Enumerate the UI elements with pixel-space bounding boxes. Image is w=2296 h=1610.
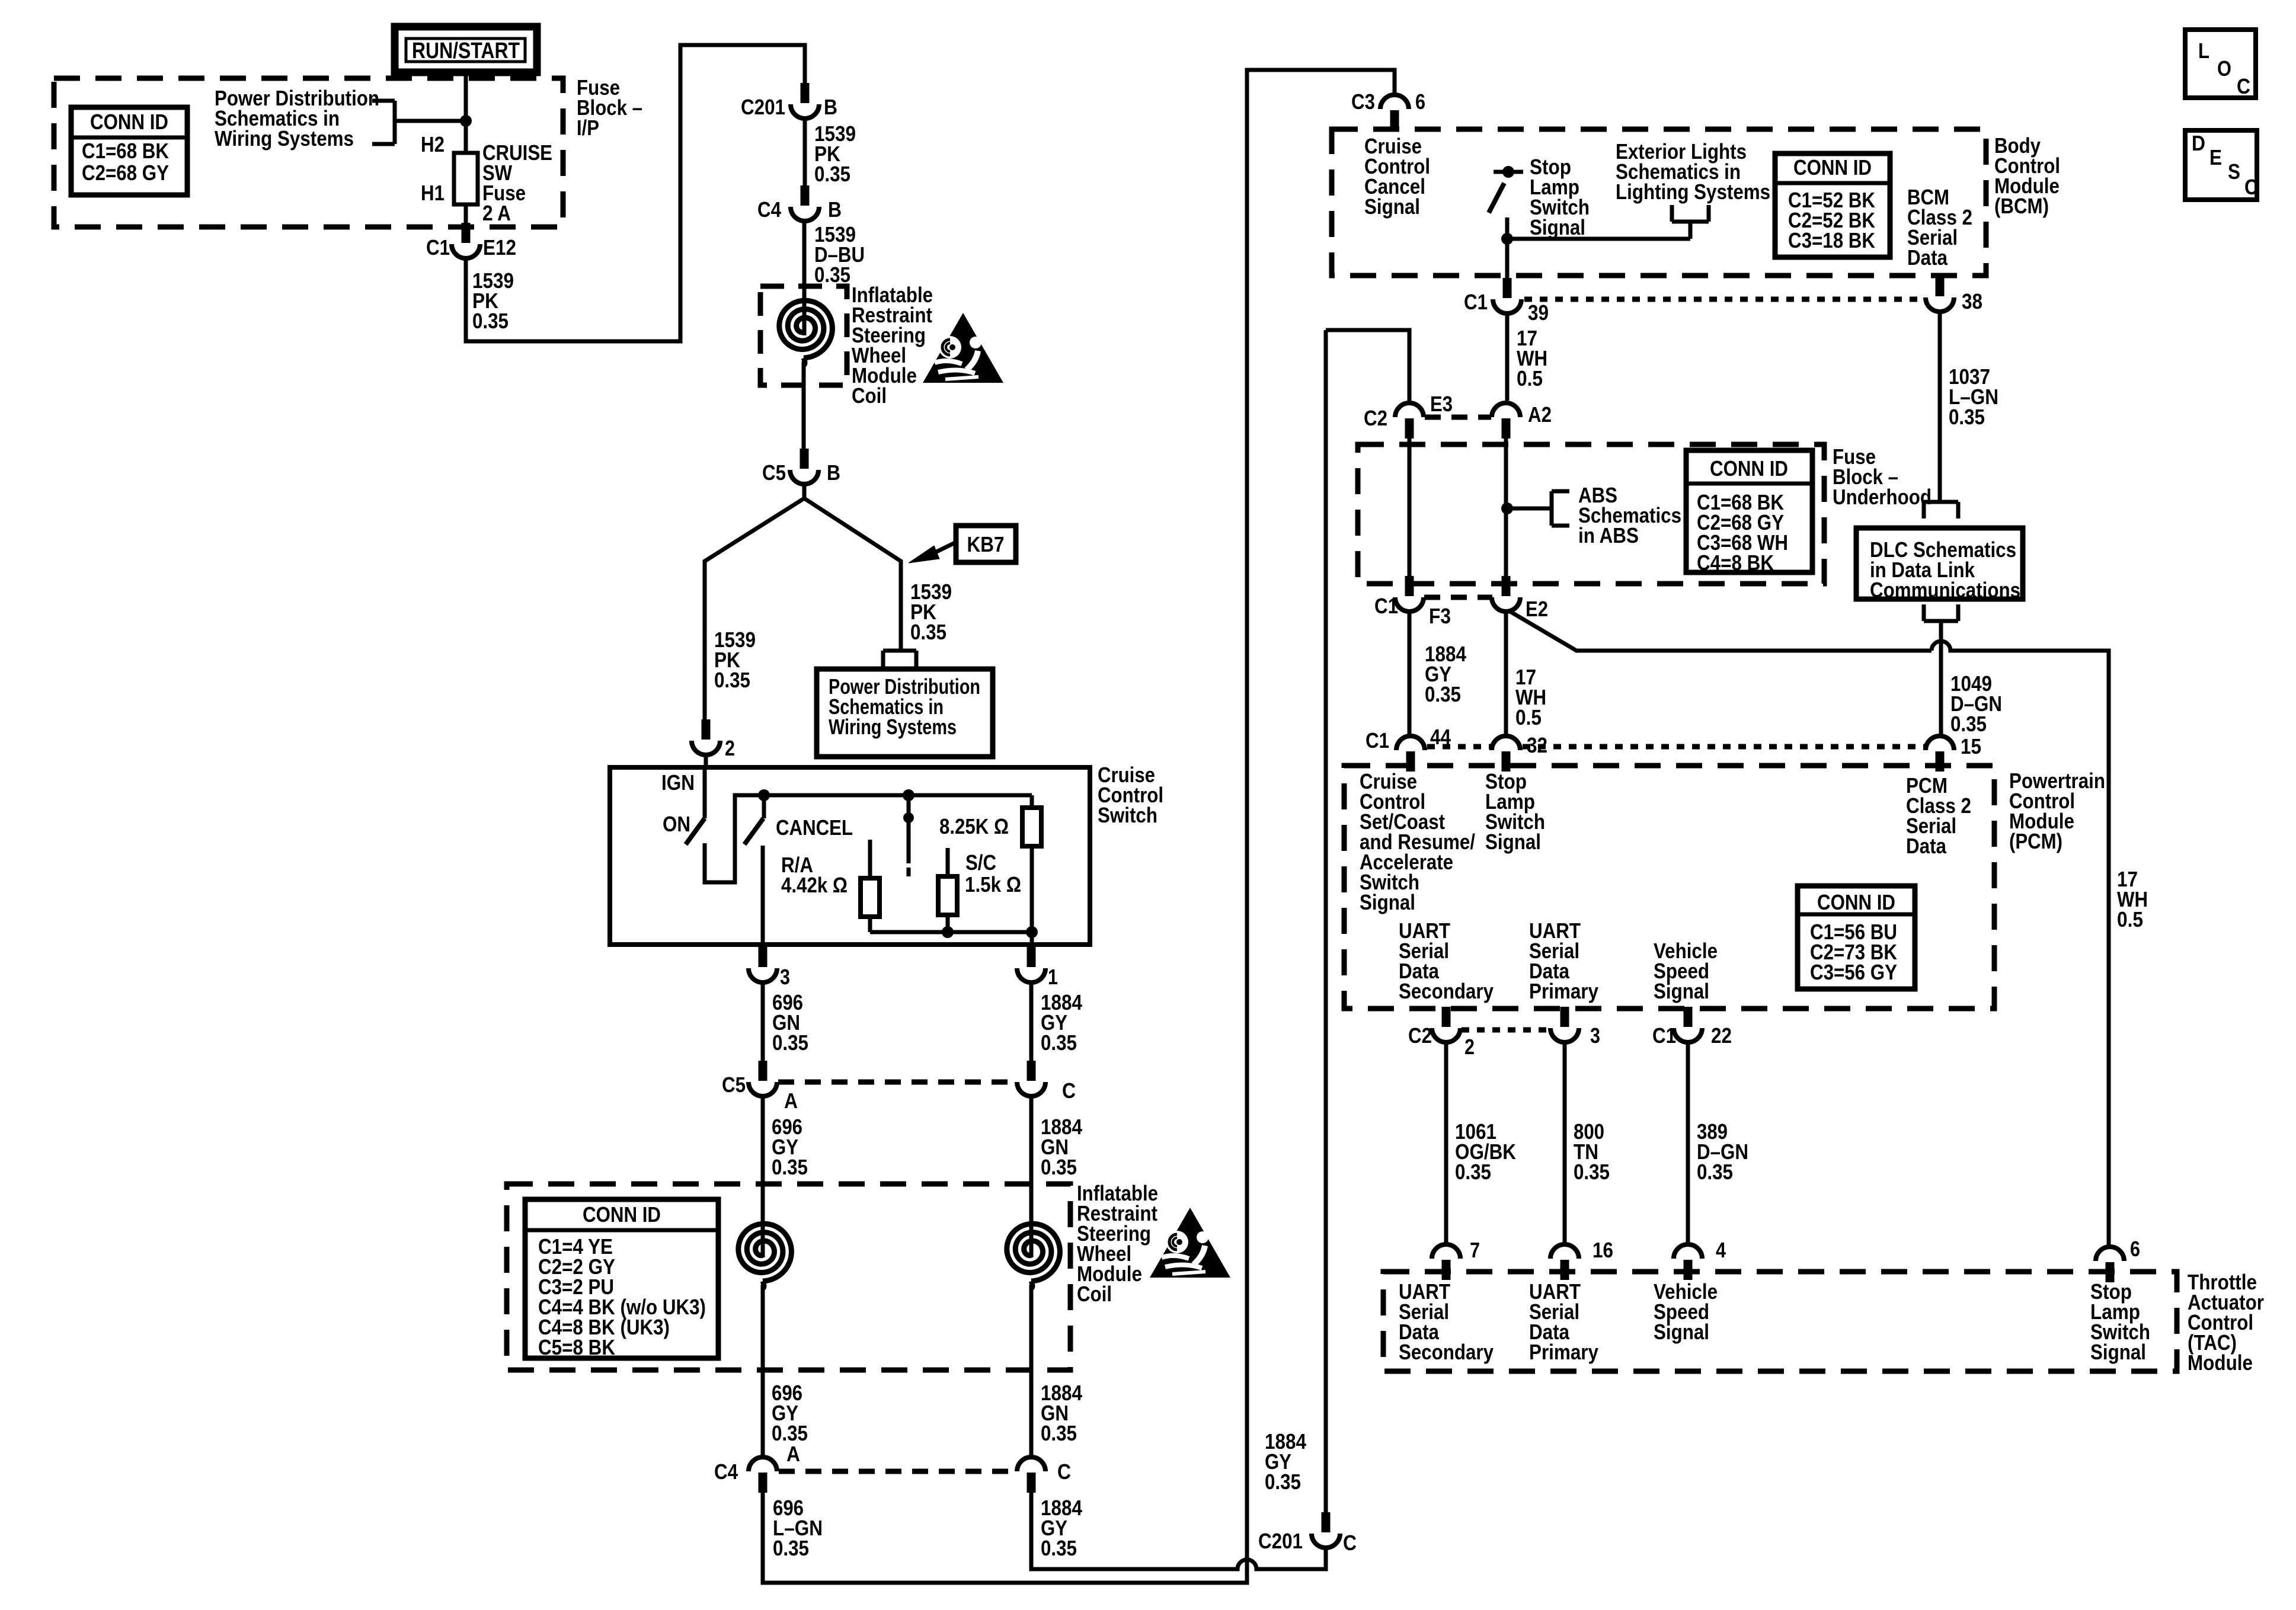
svg-text:Data: Data: [1906, 834, 1947, 858]
svg-text:Underhood: Underhood: [1833, 485, 1932, 509]
svg-text:C1: C1: [1366, 728, 1389, 753]
dotted link 2-3: [1462, 1028, 1550, 1033]
svg-text:Data: Data: [1907, 245, 1948, 270]
svg-text:0.35: 0.35: [1425, 682, 1461, 706]
svg-text:B: B: [828, 197, 842, 222]
DESC reference box: [2185, 130, 2258, 200]
svg-text:C: C: [2244, 175, 2258, 199]
Cruise Control Switch box: [610, 767, 1090, 945]
Throttle Actuator Control dashed box: [1383, 1272, 2177, 1371]
svg-text:0.35: 0.35: [1949, 405, 1985, 429]
wire stop lamp switch down: [1505, 217, 1510, 278]
svg-text:C4: C4: [757, 197, 781, 222]
wire C4/A to bottom bus: [763, 70, 1395, 1583]
dotted link 44-32: [1427, 744, 1491, 750]
wire 22 to TAC 4: [1686, 1042, 1690, 1244]
svg-text:C1: C1: [426, 235, 450, 260]
svg-text:2: 2: [725, 736, 735, 760]
svg-text:0.5: 0.5: [1517, 366, 1543, 391]
connector pin 3: [759, 947, 768, 967]
svg-text:Wiring Systems: Wiring Systems: [829, 715, 957, 739]
svg-text:E2: E2: [1526, 597, 1548, 621]
reference bracket to DLC: [1922, 502, 1926, 518]
svg-text:1.5k Ω: 1.5k Ω: [965, 872, 1021, 897]
svg-text:D: D: [2192, 131, 2205, 155]
svg-text:C: C: [1062, 1078, 1076, 1103]
connector C2 2: [1442, 1007, 1451, 1027]
connector C1 44: [1396, 736, 1425, 750]
svg-text:H1: H1: [421, 181, 445, 205]
wire E2 to PCM 32: [1504, 612, 1508, 736]
wire C201 to C4: [803, 119, 807, 185]
svg-text:8.25K Ω: 8.25K Ω: [939, 814, 1009, 838]
svg-text:C201: C201: [1258, 1529, 1303, 1553]
fuse CRUISE SW 2A: [454, 153, 478, 204]
svg-text:O: O: [2217, 56, 2231, 81]
wire coil2 right down: [1029, 1285, 1034, 1370]
junction node cancel: [758, 789, 770, 801]
svg-text:0.5: 0.5: [2117, 907, 2143, 932]
svg-text:E3: E3: [1430, 392, 1453, 416]
svg-text:in ABS: in ABS: [1578, 523, 1639, 548]
svg-text:(PCM): (PCM): [2009, 829, 2062, 853]
dotted connector line C1-38: [1524, 297, 1921, 302]
Powertrain Control Module dashed box: [1344, 766, 1994, 1009]
svg-text:0.35: 0.35: [1041, 1030, 1077, 1055]
wire C2/E3 into fuse block: [1408, 437, 1412, 576]
connector 16 (TAC): [1550, 1244, 1579, 1259]
svg-text:Secondary: Secondary: [1399, 1340, 1494, 1364]
RUN/START ignition feed box: [395, 27, 537, 72]
svg-text:0.35: 0.35: [1455, 1160, 1491, 1184]
wire C lower to C201 C with hop: [1031, 1493, 1326, 1569]
wire pin3 to C5/A: [761, 982, 765, 1061]
svg-text:7: 7: [1470, 1238, 1480, 1262]
svg-text:C: C: [2237, 74, 2250, 98]
wire C201/C up to junction bar: [1324, 330, 1328, 1512]
svg-text:A2: A2: [1528, 402, 1552, 427]
svg-text:Wiring Systems: Wiring Systems: [215, 126, 354, 151]
wire DLC to PCM 15: [1939, 621, 1943, 737]
svg-text:16: 16: [1593, 1238, 1613, 1262]
stop lamp switch symbol: [1502, 166, 1514, 178]
svg-text:0.35: 0.35: [814, 263, 850, 287]
svg-text:S: S: [2228, 159, 2240, 184]
connector 38: [1936, 276, 1945, 296]
wire coil2 left down: [761, 1285, 765, 1370]
Fuse Block - I/P dashed box: [54, 78, 563, 227]
svg-text:RUN/START: RUN/START: [412, 39, 520, 63]
inline connector dashed link: [778, 1080, 1016, 1085]
connector 6 (TAC): [2096, 1247, 2124, 1261]
connector 3 (PCM): [1560, 1007, 1569, 1027]
connector C1 E12: [462, 223, 471, 243]
svg-text:CANCEL: CANCEL: [776, 815, 853, 840]
svg-text:B: B: [824, 95, 837, 119]
wire 3 to TAC 16: [1563, 1042, 1567, 1244]
svg-text:0.35: 0.35: [1265, 1470, 1301, 1494]
connector C1 22: [1684, 1007, 1693, 1027]
connector pin 2 cruise switch: [702, 719, 711, 740]
svg-text:IGN: IGN: [661, 770, 695, 795]
connector 7 (TAC): [1432, 1244, 1460, 1259]
svg-text:Lighting Systems: Lighting Systems: [1616, 180, 1770, 204]
wire 8.25K resistor down: [1030, 846, 1034, 932]
wire C1/39 down to A2: [1505, 313, 1510, 401]
CONN ID table (underhood): [1686, 450, 1812, 575]
svg-text:Primary: Primary: [1529, 979, 1598, 1003]
connector C4 A (lower): [749, 1457, 777, 1471]
svg-text:22: 22: [1711, 1023, 1732, 1048]
set/coast switch contact: [907, 795, 911, 818]
LOC reference box: [2185, 30, 2256, 98]
svg-text:CONN ID: CONN ID: [1793, 155, 1872, 180]
svg-text:A: A: [786, 1442, 800, 1466]
svg-text:Module: Module: [2188, 1350, 2253, 1375]
dotted link 32-15: [1523, 744, 1924, 750]
junction node set/coast: [903, 789, 914, 801]
svg-text:C3=56 GY: C3=56 GY: [1810, 960, 1897, 984]
steering wheel module coil spiral: [779, 300, 833, 358]
svg-text:S/C: S/C: [965, 850, 996, 875]
connector C (right): [1027, 1061, 1036, 1081]
coil spiral right: [1007, 1224, 1060, 1281]
reference bracket to Power Distribution box: [881, 651, 885, 667]
wire coil to C5: [802, 361, 806, 449]
connector 4 (TAC): [1674, 1244, 1702, 1259]
connector C201 C: [1322, 1512, 1331, 1532]
wire C4/B to coil: [802, 221, 807, 335]
inflatable restraint coil dashed box: [760, 286, 847, 385]
svg-text:C3: C3: [1351, 89, 1375, 114]
svg-text:2 A: 2 A: [482, 201, 511, 225]
inline connector dashed link 2: [779, 1469, 1016, 1474]
CONN ID table (BCM): [1775, 153, 1890, 257]
connector C1 F3: [1405, 576, 1414, 596]
Body Control Module dashed box: [1332, 129, 1986, 276]
svg-text:ON: ON: [663, 812, 690, 836]
svg-text:0.35: 0.35: [1574, 1160, 1610, 1184]
svg-text:(BCM): (BCM): [1994, 194, 2049, 218]
svg-text:Coil: Coil: [852, 383, 887, 408]
svg-text:0.35: 0.35: [1950, 712, 1987, 736]
svg-text:C4: C4: [714, 1459, 738, 1484]
svg-text:38: 38: [1962, 289, 1982, 313]
svg-text:Signal: Signal: [1654, 979, 1709, 1003]
svg-text:C1=68 BK: C1=68 BK: [82, 139, 169, 163]
svg-text:C: C: [1057, 1459, 1071, 1484]
svg-text:Primary: Primary: [1529, 1340, 1598, 1364]
svg-text:3: 3: [780, 965, 790, 989]
connector 15: [1926, 736, 1954, 750]
wire 38 down to DLC: [1938, 312, 1942, 502]
svg-text:C5=8 BK: C5=8 BK: [538, 1335, 615, 1359]
Fuse Block Underhood dashed box: [1358, 444, 1824, 584]
CANCEL switch: [762, 795, 766, 818]
junction bar to stop/cancel branch: [1326, 330, 1409, 401]
svg-text:Signal: Signal: [2090, 1340, 2146, 1364]
svg-text:2: 2: [1464, 1035, 1475, 1059]
IGN wire inside switch: [703, 767, 707, 818]
connector C5 B: [800, 449, 809, 469]
svg-text:0.35: 0.35: [472, 309, 509, 333]
wire to R/A resistor: [868, 840, 872, 878]
wire C down to coil 2 right: [1029, 1096, 1034, 1257]
svg-text:CONN ID: CONN ID: [583, 1202, 661, 1227]
connector C2 E3: [1395, 403, 1424, 417]
connector C4 B: [801, 185, 810, 206]
svg-text:C5: C5: [762, 460, 786, 485]
svg-text:CONN ID: CONN ID: [1710, 456, 1788, 481]
svg-text:Signal: Signal: [1360, 890, 1415, 914]
wire to S/C resistor: [946, 848, 950, 876]
svg-text:C: C: [1343, 1531, 1357, 1555]
svg-text:Communications: Communications: [1870, 578, 2020, 602]
connector C201 B: [801, 83, 810, 103]
wire fuse to C1/E12: [464, 204, 468, 223]
wire 2 to TAC 7: [1444, 1042, 1448, 1244]
connector A2: [1492, 403, 1520, 417]
svg-text:C4=8 BK: C4=8 BK: [1697, 550, 1774, 575]
svg-text:C1: C1: [1374, 594, 1398, 618]
svg-text:0.35: 0.35: [1041, 1421, 1077, 1445]
connector 32: [1492, 736, 1520, 750]
svg-text:C2: C2: [1364, 406, 1387, 430]
svg-text:B: B: [827, 460, 840, 485]
top bus inside switch: [764, 793, 1032, 798]
svg-text:C2=68 GY: C2=68 GY: [82, 161, 169, 185]
svg-text:E12: E12: [483, 235, 516, 260]
svg-text:C2: C2: [1408, 1023, 1432, 1048]
svg-text:A: A: [784, 1089, 798, 1113]
svg-text:0.35: 0.35: [772, 1030, 808, 1055]
svg-text:Coil: Coil: [1077, 1282, 1112, 1306]
resistor R/A 4.42k: [861, 878, 880, 917]
reference bracket from DLC: [1922, 604, 1926, 621]
wire bracket to RUN/START feed: [395, 119, 466, 123]
wire F3 to PCM 44: [1408, 612, 1412, 736]
svg-text:0.35: 0.35: [1041, 1155, 1077, 1179]
reference bracket to Power Distribution: [372, 99, 395, 103]
reference bracket ABS: [1552, 489, 1569, 494]
svg-text:E: E: [2209, 145, 2222, 169]
svg-text:C3=18 BK: C3=18 BK: [1788, 228, 1875, 252]
wire RUN/START down to fuse: [464, 72, 468, 153]
svg-text:Signal: Signal: [1530, 215, 1585, 239]
svg-text:I/P: I/P: [577, 116, 599, 140]
connector C (lower right): [1017, 1457, 1045, 1471]
svg-text:0.35: 0.35: [714, 668, 750, 692]
resistor 8.25K: [1022, 808, 1041, 846]
diagonal from E2 to TAC feed: [1510, 612, 1932, 651]
svg-text:Secondary: Secondary: [1399, 979, 1494, 1003]
wire A2 into fuse block: [1504, 437, 1508, 576]
connector C1 39: [1503, 278, 1512, 298]
svg-text:Signal: Signal: [1654, 1320, 1709, 1344]
svg-text:CONN ID: CONN ID: [90, 110, 168, 134]
svg-text:Signal: Signal: [1364, 194, 1420, 219]
airbag warning triangle 2: [1150, 1208, 1230, 1278]
wire C5/A down to coil 2: [761, 1096, 765, 1257]
junction to exterior lights: [1501, 233, 1513, 245]
svg-text:C5: C5: [722, 1073, 746, 1097]
airbag warning triangle: [923, 313, 1003, 383]
svg-text:CONN ID: CONN ID: [1817, 890, 1895, 914]
svg-text:4: 4: [1716, 1238, 1726, 1262]
switch blade ON: [686, 818, 705, 844]
svg-text:C1: C1: [1652, 1023, 1676, 1048]
svg-text:6: 6: [1415, 89, 1425, 114]
wire cancel to pin 3: [761, 846, 765, 945]
wire to 8.25K resistor: [1030, 795, 1034, 808]
svg-text:0.35: 0.35: [773, 1536, 809, 1560]
dashed link F3-E2: [1424, 595, 1492, 600]
CONN ID table (SIR coil): [525, 1199, 718, 1359]
hop over DLC wire: [1932, 641, 2109, 1246]
bottom bus inside switch: [870, 930, 1032, 934]
svg-text:6: 6: [2130, 1237, 2140, 1261]
Power Distribution Schematics in Wiring Systems box: [817, 669, 993, 757]
svg-text:0.35: 0.35: [772, 1155, 808, 1179]
connector E2: [1502, 576, 1511, 596]
wire from ON blade to cancel branch: [705, 795, 764, 882]
connector pin 1: [1027, 947, 1036, 967]
wire Y split: [705, 484, 804, 719]
svg-text:H2: H2: [421, 132, 445, 156]
KB7 callout box with arrow: [909, 526, 1016, 563]
dashed link E3-A2: [1425, 415, 1491, 420]
svg-text:C1: C1: [1464, 290, 1488, 314]
svg-text:0.35: 0.35: [1697, 1160, 1733, 1184]
svg-text:3: 3: [1590, 1023, 1600, 1048]
svg-text:Signal: Signal: [1485, 830, 1541, 854]
wire pin2 to switch box: [704, 755, 708, 767]
svg-text:KB7: KB7: [967, 532, 1005, 556]
resistor S/C 1.5k: [938, 876, 957, 915]
CONN ID table (PCM): [1798, 886, 1915, 989]
svg-text:4.42k Ω: 4.42k Ω: [781, 873, 848, 897]
svg-text:C201: C201: [741, 95, 785, 119]
connector C3 6 (BCM): [1380, 95, 1409, 109]
CONN ID table (Fuse Block I/P): [71, 107, 187, 195]
DLC Schematics box: [1856, 528, 2023, 602]
connector C5 A: [759, 1061, 768, 1081]
svg-text:F3: F3: [1429, 604, 1451, 628]
reference bracket exterior lights: [1670, 205, 1674, 222]
svg-text:L: L: [2198, 39, 2209, 63]
wire to pin 1: [1030, 932, 1034, 945]
coil spiral left: [738, 1224, 792, 1281]
svg-text:0.35: 0.35: [910, 620, 946, 644]
svg-text:15: 15: [1961, 734, 1981, 758]
svg-text:1: 1: [1048, 965, 1058, 989]
inflatable restraint coil 2 dashed box: [507, 1184, 1070, 1370]
svg-text:0.5: 0.5: [1515, 705, 1542, 729]
junction node at fuse feed: [460, 115, 472, 127]
svg-text:0.35: 0.35: [814, 162, 850, 186]
svg-text:0.35: 0.35: [1041, 1536, 1077, 1560]
wire pin1 to C: [1029, 982, 1034, 1061]
svg-text:39: 39: [1528, 300, 1549, 325]
svg-text:Switch: Switch: [1098, 803, 1157, 827]
wire C1/E12 down right and up to C201: [466, 45, 805, 341]
ABS junction: [1501, 502, 1513, 514]
